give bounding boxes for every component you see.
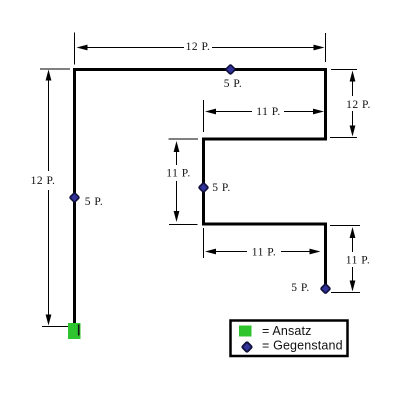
- dimension right upper 12 P. extension line bottom: [330, 137, 357, 139]
- svg-text:11 P.: 11 P.: [252, 247, 276, 259]
- legend Gegenstand marker: [242, 342, 252, 352]
- dimension right lower 11 P. line: [352, 236, 354, 252]
- svg-text:5 P.: 5 P.: [291, 282, 310, 294]
- wire: upper middle horizontal segment: [202, 138, 327, 141]
- svg-text:11 P.: 11 P.: [166, 168, 190, 180]
- wire: lower right vertical segment: [324, 223, 327, 288]
- dimension right upper 12 P. extension line top: [331, 69, 357, 71]
- dimension right lower 11 P. extension line bottom: [331, 292, 360, 294]
- dimension lower middle 11 P. line: [214, 251, 247, 253]
- legend Ansatz swatch: [239, 326, 252, 337]
- dimension right upper 12 P. line: [352, 79, 354, 96]
- svg-text:= Ansatz: = Ansatz: [262, 324, 312, 338]
- node: Gegenstand marker at path end: [321, 284, 331, 294]
- svg-text:11 P.: 11 P.: [256, 106, 280, 118]
- svg-text:5 P.: 5 P.: [212, 182, 231, 194]
- svg-text:12 P.: 12 P.: [186, 41, 211, 53]
- svg-text:11 P.: 11 P.: [346, 255, 370, 267]
- dimension middle left 11 P. line: [176, 150, 178, 165]
- node: Gegenstand marker on left segment: [70, 193, 80, 203]
- svg-text:5 P.: 5 P.: [224, 78, 243, 90]
- dimension left 12 P. extension line bottom: [42, 326, 69, 328]
- wire: top horizontal segment: [73, 68, 327, 71]
- svg-text:12 P.: 12 P.: [31, 175, 56, 187]
- dimension left 12 P. line: [48, 78, 50, 171]
- dimension top 12 P. extension line left: [74, 33, 76, 65]
- svg-text:12 P.: 12 P.: [346, 99, 371, 111]
- dimension upper middle 11 P. line: [214, 111, 252, 113]
- node: Gegenstand marker on top segment: [226, 65, 236, 75]
- dimension lower middle 11 P. extension line left: [203, 228, 205, 258]
- node: Ansatz start marker (green square): [68, 323, 81, 339]
- dimension top 12 P. extension line right: [325, 33, 327, 62]
- dimension middle left 11 P. extension line bottom: [169, 224, 198, 226]
- wire: left vertical segment: [73, 68, 76, 323]
- dimension upper middle 11 P. extension line left: [203, 100, 205, 132]
- dimension middle left 11 P. extension line top: [169, 138, 199, 140]
- wire: upper right vertical segment: [324, 68, 327, 141]
- wire: middle vertical segment: [202, 138, 205, 226]
- dimension right lower 11 P. extension line top: [330, 225, 360, 227]
- dimension left 12 P. extension line top: [40, 68, 70, 70]
- node: Gegenstand marker on middle segment: [199, 183, 209, 193]
- wire: lower middle horizontal segment: [202, 223, 327, 226]
- dimension top 12 P. line: [84, 47, 184, 49]
- svg-text:5 P.: 5 P.: [85, 196, 104, 208]
- legend box: [231, 321, 348, 357]
- svg-text:= Gegenstand: = Gegenstand: [262, 339, 343, 353]
